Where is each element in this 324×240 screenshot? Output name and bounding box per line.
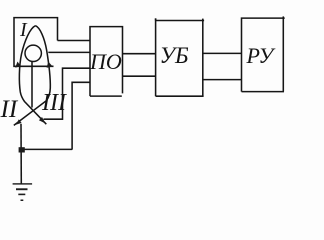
block I box (scanner) xyxy=(14,18,58,67)
svg-text:ПО: ПО xyxy=(89,49,122,74)
svg-text:II: II xyxy=(0,96,19,123)
wire UB-RU lower xyxy=(203,79,242,81)
wire circle to crossing xyxy=(31,62,33,108)
oval left branch (scan loop) xyxy=(19,26,46,125)
arrow at crossing lower-left xyxy=(16,119,22,124)
wire A: lower contact to PO xyxy=(44,68,91,119)
arrow on oval right branch xyxy=(47,62,53,68)
arrow at crossing lower-right xyxy=(39,117,46,124)
box PO xyxy=(90,27,123,97)
wire ground stem xyxy=(20,124,22,184)
oval right branch (scan loop) xyxy=(14,26,51,126)
wire B: junction line to PO xyxy=(72,82,90,149)
svg-text:I: I xyxy=(19,19,28,41)
lens circle xyxy=(25,45,41,61)
wire junction horizontal xyxy=(21,148,72,150)
ground bar 4 xyxy=(21,200,24,202)
svg-text:УБ: УБ xyxy=(160,43,189,68)
box RU xyxy=(242,16,285,91)
wire circle output to PO xyxy=(48,51,90,53)
svg-text:III: III xyxy=(41,90,67,116)
arrow on oval left branch xyxy=(15,62,21,68)
junction dot xyxy=(19,147,25,152)
svg-text:РУ: РУ xyxy=(246,43,277,68)
box UB xyxy=(156,18,205,96)
wire PO-UB lower xyxy=(123,75,156,77)
wire top box to PO xyxy=(58,40,91,42)
ground bar 1 xyxy=(13,183,32,184)
wire PO-UB upper xyxy=(123,53,156,55)
ground bar 3 xyxy=(18,194,25,196)
ground bar 2 xyxy=(16,188,28,190)
wire UB-RU upper xyxy=(203,52,242,54)
